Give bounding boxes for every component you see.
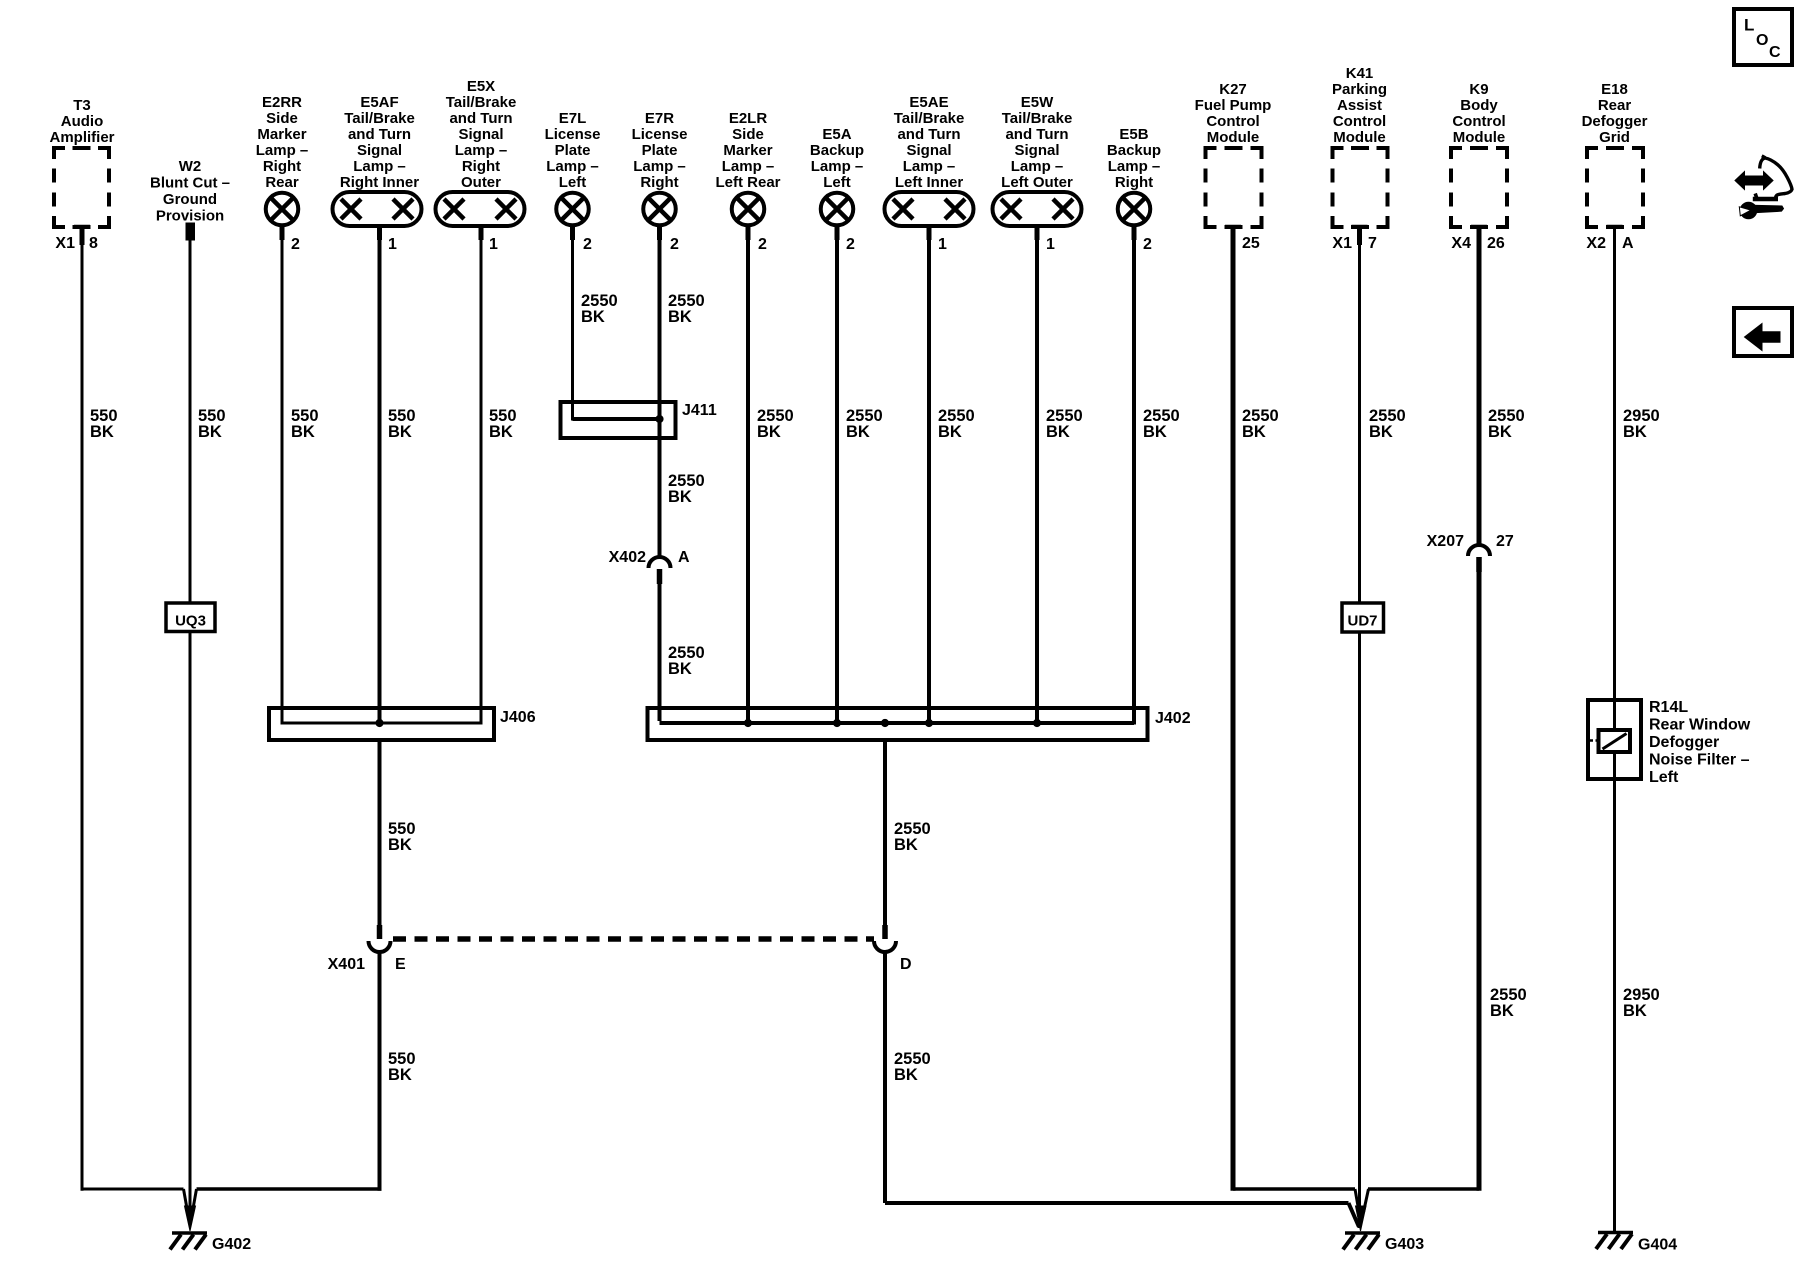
svg-text:License: License [632, 126, 688, 143]
svg-text:Left: Left [559, 174, 587, 191]
svg-text:1: 1 [388, 236, 397, 253]
wire E5AE pin 1 2550 BK to J402 [929, 226, 975, 723]
svg-text:C: C [1769, 44, 1781, 61]
svg-text:Lamp –: Lamp – [811, 158, 864, 175]
svg-text:Module: Module [1453, 129, 1506, 146]
svg-text:BK: BK [388, 1066, 412, 1084]
svg-text:Signal: Signal [906, 142, 951, 159]
svg-text:BK: BK [198, 423, 222, 441]
svg-text:X401: X401 [328, 956, 365, 973]
svg-text:Ground: Ground [163, 191, 217, 208]
wire J406 550 BK to X401 [380, 740, 416, 925]
module E18 Rear Defogger Grid [1582, 81, 1648, 252]
junction J411 [561, 402, 717, 438]
svg-text:Tail/Brake: Tail/Brake [1002, 110, 1073, 127]
wire E5B pin 2 2550 BK to J402 [1134, 226, 1180, 725]
svg-text:Rear Window: Rear Window [1649, 717, 1751, 734]
svg-text:BK: BK [1490, 1002, 1514, 1020]
svg-text:Parking: Parking [1332, 81, 1387, 98]
svg-text:Control: Control [1206, 113, 1259, 130]
svg-text:A: A [678, 549, 690, 566]
svg-text:Left Outer: Left Outer [1001, 174, 1073, 191]
wire E5A pin 2 2550 BK to J402 [837, 226, 883, 724]
svg-text:Rear: Rear [265, 174, 299, 191]
svg-text:BK: BK [489, 423, 513, 441]
lamp E7L License Plate Lamp Left [545, 110, 601, 253]
svg-text:E5A: E5A [822, 126, 851, 143]
wire K27 pin 25 2550 BK to G403 [1233, 227, 1355, 1191]
svg-text:7: 7 [1368, 235, 1377, 252]
svg-text:2: 2 [846, 236, 855, 253]
wire E7L pin 2 2550 BK to J411 [573, 226, 660, 421]
svg-text:X402: X402 [609, 549, 646, 566]
svg-text:E5AE: E5AE [909, 94, 948, 111]
svg-text:BK: BK [1143, 423, 1167, 441]
svg-text:UD7: UD7 [1347, 613, 1377, 630]
svg-text:E5X: E5X [467, 78, 495, 95]
RPO option box UD7 [1342, 603, 1384, 632]
svg-text:and Turn: and Turn [897, 126, 960, 143]
lamp E5W Tail/Brake and Turn Signal Lamp Left Outer [993, 94, 1082, 253]
svg-text:Tail/Brake: Tail/Brake [446, 94, 517, 111]
wire E5AF pin 1 550 BK to J406 [380, 226, 416, 723]
svg-text:Assist: Assist [1337, 97, 1382, 114]
svg-text:1: 1 [1046, 236, 1055, 253]
wire X401 550 BK to G402 [197, 952, 416, 1191]
svg-text:E5B: E5B [1119, 126, 1148, 143]
dashed harness tie X401 E to D [393, 936, 874, 942]
wire X207 2550 BK to G403 [1368, 407, 1527, 1191]
wire D 2550 BK to G403 [885, 952, 1349, 1203]
svg-text:Right: Right [640, 174, 678, 191]
splice W2 Blunt Cut Ground Provision [150, 158, 230, 240]
module K41 Parking Assist Control Module [1332, 65, 1388, 252]
inline connector X401 pin E [328, 925, 406, 973]
svg-text:1: 1 [489, 236, 498, 253]
svg-text:27: 27 [1496, 533, 1514, 550]
svg-text:Lamp –: Lamp – [903, 158, 956, 175]
svg-text:Backup: Backup [810, 142, 864, 159]
svg-text:Control: Control [1333, 113, 1386, 130]
wire E2LR pin 2 2550 BK to J402 [748, 226, 794, 724]
svg-text:Side: Side [732, 126, 764, 143]
svg-text:and Turn: and Turn [348, 126, 411, 143]
svg-text:BK: BK [846, 423, 870, 441]
lamp E5X Tail/Brake and Turn Signal Lamp Right Outer [436, 78, 525, 253]
back arrow box [1734, 308, 1792, 356]
svg-text:BK: BK [388, 836, 412, 854]
wire J402 2550 BK to connector D [885, 740, 931, 925]
svg-text:UQ3: UQ3 [175, 613, 206, 630]
module T3 Audio Amplifier [49, 97, 114, 252]
svg-text:2: 2 [583, 236, 592, 253]
svg-text:X4: X4 [1451, 235, 1471, 252]
svg-text:Lamp –: Lamp – [455, 142, 508, 159]
svg-text:Lamp –: Lamp – [1011, 158, 1064, 175]
lamp E5AF Tail/Brake and Turn Signal Lamp Right Inner [333, 94, 422, 253]
wire T3 pin 8 550 BK to G402 [81, 227, 184, 1191]
svg-text:E: E [395, 956, 406, 973]
svg-text:Marker: Marker [257, 126, 306, 143]
svg-text:W2: W2 [179, 158, 202, 175]
svg-text:Lamp –: Lamp – [722, 158, 775, 175]
svg-text:BK: BK [581, 308, 605, 326]
svg-text:L: L [1744, 16, 1754, 35]
svg-text:BK: BK [668, 660, 692, 678]
svg-text:Signal: Signal [357, 142, 402, 159]
wire E5X pin 1 550 BK to J406 [481, 226, 517, 725]
wire E18 pin A 2950 BK to G404 [1615, 227, 1660, 1232]
ground G404 [1596, 1233, 1677, 1254]
svg-text:Right: Right [462, 158, 500, 175]
lamp E2LR Side Marker Lamp Left Rear [715, 110, 780, 253]
wire E7R pin 2 2550 BK to X402 [660, 226, 705, 558]
inline connector D [874, 925, 912, 973]
RPO option box UQ3 [166, 603, 215, 632]
svg-text:2: 2 [670, 236, 679, 253]
svg-text:Lamp –: Lamp – [633, 158, 686, 175]
svg-text:E7R: E7R [645, 110, 674, 127]
svg-text:Backup: Backup [1107, 142, 1161, 159]
svg-text:K27: K27 [1219, 81, 1247, 98]
svg-text:BK: BK [757, 423, 781, 441]
svg-text:and Turn: and Turn [449, 110, 512, 127]
svg-text:Defogger: Defogger [1582, 113, 1648, 130]
svg-text:X1: X1 [1332, 235, 1352, 252]
svg-text:Rear: Rear [1598, 97, 1632, 114]
svg-text:K41: K41 [1346, 65, 1374, 82]
ground G403 [1343, 1189, 1424, 1253]
svg-text:2: 2 [758, 236, 767, 253]
svg-text:BK: BK [1046, 423, 1070, 441]
svg-text:BK: BK [291, 423, 315, 441]
svg-text:T3: T3 [73, 97, 91, 114]
svg-text:Plate: Plate [555, 142, 591, 159]
svg-text:X2: X2 [1586, 235, 1606, 252]
lamp E5A Backup Lamp Left [810, 126, 864, 253]
svg-text:K9: K9 [1469, 81, 1488, 98]
wire K41 pin 7 2550 BK to G403 [1360, 227, 1406, 1228]
svg-text:X207: X207 [1427, 533, 1464, 550]
svg-text:Left: Left [1649, 769, 1679, 786]
svg-text:Right: Right [263, 158, 301, 175]
ground G402 [170, 1189, 251, 1253]
svg-text:D: D [900, 956, 912, 973]
svg-text:Side: Side [266, 110, 298, 127]
svg-text:Marker: Marker [723, 142, 772, 159]
lamp E5AE Tail/Brake and Turn Signal Lamp Left Inner [885, 94, 974, 253]
svg-text:and Turn: and Turn [1005, 126, 1068, 143]
svg-text:Grid: Grid [1599, 129, 1630, 146]
svg-text:BK: BK [1623, 1002, 1647, 1020]
svg-text:Signal: Signal [458, 126, 503, 143]
svg-text:G404: G404 [1638, 1237, 1677, 1254]
svg-text:Module: Module [1333, 129, 1386, 146]
svg-text:Signal: Signal [1014, 142, 1059, 159]
junction J406 [269, 708, 536, 740]
svg-text:Left Rear: Left Rear [715, 174, 780, 191]
svg-text:X1: X1 [55, 235, 75, 252]
svg-text:Plate: Plate [642, 142, 678, 159]
LOC legend box [1734, 9, 1792, 65]
lamp E5B Backup Lamp Right [1107, 126, 1161, 253]
svg-text:25: 25 [1242, 235, 1260, 252]
svg-text:J411: J411 [682, 402, 717, 419]
svg-text:Lamp –: Lamp – [546, 158, 599, 175]
svg-text:Control: Control [1452, 113, 1505, 130]
svg-text:BK: BK [668, 308, 692, 326]
svg-text:BK: BK [1242, 423, 1266, 441]
svg-text:A: A [1622, 235, 1634, 252]
svg-text:Module: Module [1207, 129, 1260, 146]
svg-text:BK: BK [90, 423, 114, 441]
svg-text:E5W: E5W [1021, 94, 1054, 111]
svg-text:Amplifier: Amplifier [49, 129, 114, 146]
wire E5W pin 1 2550 BK to J402 [1037, 226, 1083, 723]
inline connector X207 pin 27 [1427, 533, 1514, 572]
svg-text:J406: J406 [500, 709, 536, 726]
svg-text:Outer: Outer [461, 174, 501, 191]
module K27 Fuel Pump Control Module [1195, 81, 1272, 252]
hand with arrow and wrench icon [1735, 156, 1792, 219]
svg-text:BK: BK [1488, 423, 1512, 441]
svg-text:1: 1 [938, 236, 947, 253]
svg-text:Lamp –: Lamp – [256, 142, 309, 159]
noise filter R14L Rear Window Defogger Noise Filter Left [1588, 699, 1751, 786]
svg-text:Left Inner: Left Inner [895, 174, 963, 191]
svg-text:License: License [545, 126, 601, 143]
svg-text:E7L: E7L [559, 110, 587, 127]
inline connector X402 pin A [609, 549, 690, 584]
svg-text:26: 26 [1487, 235, 1505, 252]
svg-text:BK: BK [894, 836, 918, 854]
svg-text:BK: BK [938, 423, 962, 441]
svg-text:Lamp –: Lamp – [1108, 158, 1161, 175]
wire W2 550 BK to G402 [190, 240, 226, 1222]
svg-text:J402: J402 [1155, 710, 1191, 727]
svg-text:Provision: Provision [156, 208, 224, 225]
svg-text:E2LR: E2LR [729, 110, 768, 127]
svg-text:Fuel Pump: Fuel Pump [1195, 97, 1272, 114]
svg-text:BK: BK [894, 1066, 918, 1084]
svg-text:O: O [1756, 32, 1768, 49]
lamp E2RR Side Marker Lamp Right Rear [256, 94, 309, 253]
svg-text:BK: BK [668, 488, 692, 506]
svg-text:Body: Body [1460, 97, 1498, 114]
wire E2RR pin 2 550 BK to J406 [282, 226, 319, 725]
svg-text:G403: G403 [1385, 1236, 1424, 1253]
wire X402 2550 BK to J402 [660, 584, 1135, 723]
module K9 Body Control Module [1451, 81, 1507, 252]
svg-text:Right Inner: Right Inner [340, 174, 419, 191]
svg-text:Left: Left [823, 174, 851, 191]
svg-text:E2RR: E2RR [262, 94, 302, 111]
svg-text:E18: E18 [1601, 81, 1628, 98]
svg-text:Blunt Cut –: Blunt Cut – [150, 175, 230, 192]
svg-text:Tail/Brake: Tail/Brake [344, 110, 415, 127]
svg-text:Lamp –: Lamp – [353, 158, 406, 175]
junction J402 [648, 708, 1191, 740]
svg-text:G402: G402 [212, 1236, 251, 1253]
svg-text:BK: BK [388, 423, 412, 441]
svg-text:E5AF: E5AF [360, 94, 398, 111]
svg-text:Audio: Audio [61, 113, 104, 130]
svg-text:BK: BK [1623, 423, 1647, 441]
svg-text:2: 2 [291, 236, 300, 253]
svg-text:8: 8 [89, 235, 98, 252]
svg-text:BK: BK [1369, 423, 1393, 441]
svg-text:Defogger: Defogger [1649, 734, 1719, 751]
wire K9 pin 26 2550 BK to X207 [1477, 227, 1482, 545]
svg-text:R14L: R14L [1649, 699, 1688, 716]
svg-text:Right: Right [1115, 174, 1153, 191]
svg-text:Tail/Brake: Tail/Brake [894, 110, 965, 127]
svg-text:2: 2 [1143, 236, 1152, 253]
svg-text:Noise Filter –: Noise Filter – [1649, 752, 1750, 769]
lamp E7R License Plate Lamp Right [632, 110, 688, 253]
